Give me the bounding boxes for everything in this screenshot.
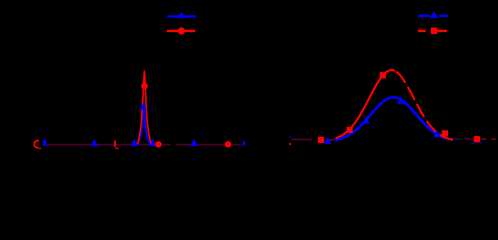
right plot blue triangle markers [324,137,331,144]
left plot red spike curve [136,71,153,145]
right plot clipped red dot at left edge [289,143,291,145]
right legend red dashed line [418,30,426,32]
left plot clipped blue triangle at right edge [242,139,246,145]
left plot baseline segment 2 [176,144,241,146]
left plot red circle markers on baseline [155,141,161,147]
left legend red line [167,30,196,32]
right plot clipped blue dot at left edge [290,136,292,138]
left plot red circle marker at peak [141,83,148,90]
right plot small purple segment before rise [329,138,335,141]
right plot blue curve dashed tail [449,138,461,139]
left plot partial red circle (C shape) at left edge [34,141,39,148]
right legend blue dashed line [419,15,431,17]
left plot blue spike curve [135,102,153,144]
right plot blue gaussian curve (solid part) [335,97,446,140]
left plot baseline segment 1 [47,144,170,146]
left legend blue triangle marker [178,12,186,18]
left legend red circle marker [178,27,185,34]
right plot flat baseline left segment [292,138,312,140]
left plot clipped blue triangle at left edge [43,139,47,146]
right legend blue triangle marker [430,11,438,18]
left legend blue line [167,15,196,17]
right plot red gaussian curve (dashed falling part) [396,71,453,139]
left plot partial red circle (bar shape) at x=115 [114,140,117,146]
right plot red square markers [318,137,324,143]
right legend red square marker [431,28,438,35]
left plot blue triangle marker at peak [140,103,147,110]
right plot dim tail dashes after merge [465,137,472,140]
right plot blue triangle under final red square [472,141,475,144]
right plot red gaussian curve (solid rising part) [336,70,396,138]
left plot blue triangle markers on baseline [91,139,98,146]
right plot final red square marker [474,136,480,142]
